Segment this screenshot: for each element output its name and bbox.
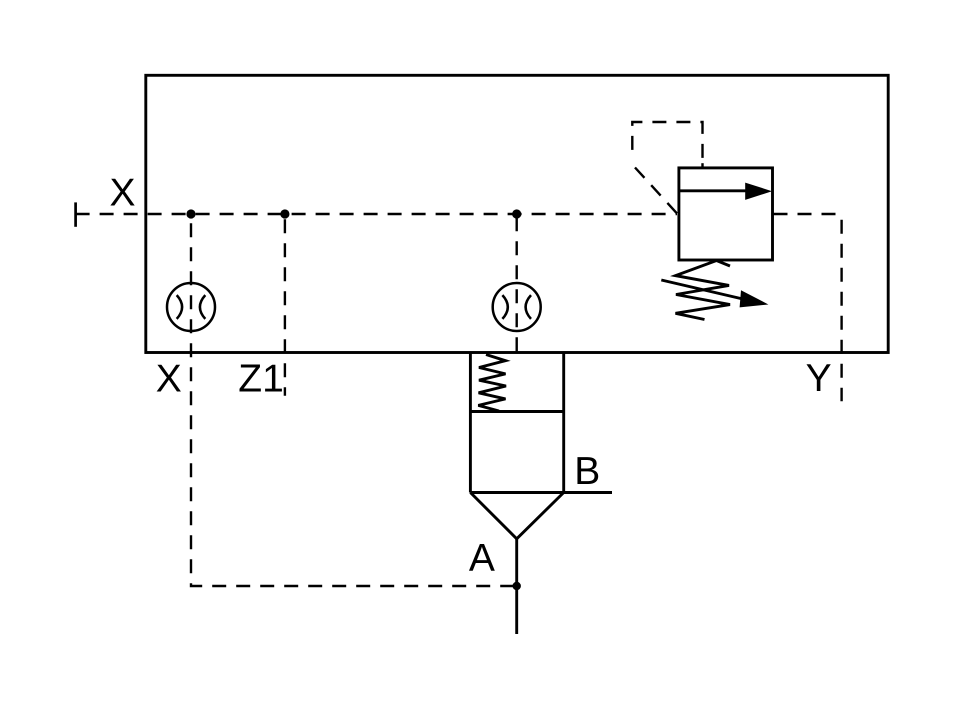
node cartridge pilot junction bbox=[512, 209, 521, 218]
wire: dashed segment right of relief valve bbox=[773, 213, 842, 215]
relief valve spring adjustment arrow bbox=[661, 280, 768, 307]
node junction on X line bbox=[186, 209, 195, 218]
node A junction bbox=[513, 582, 521, 590]
relief valve pilot dashed loop bbox=[632, 122, 702, 168]
cartridge valve body bbox=[470, 353, 563, 493]
svg-text:A: A bbox=[469, 537, 495, 580]
cartridge poppet seat triangle bbox=[470, 493, 563, 539]
port A line bbox=[515, 539, 518, 634]
relief valve body bbox=[679, 168, 773, 260]
svg-text:Y: Y bbox=[806, 357, 832, 400]
manifold block outline bbox=[146, 75, 888, 352]
svg-text:Z1: Z1 bbox=[238, 357, 284, 400]
svg-text:B: B bbox=[574, 450, 600, 493]
relief valve flow arrow bbox=[679, 183, 772, 200]
wire: pilot line X horizontal dashed bbox=[76, 213, 677, 215]
wire: X branch vertical dashed then to node A bbox=[191, 214, 517, 586]
wire: Z1 branch vertical dashed bbox=[284, 214, 286, 396]
wire: cartridge pilot vertical dashed bbox=[516, 214, 518, 353]
orifice plug in X branch bbox=[167, 283, 215, 331]
svg-text:X: X bbox=[110, 171, 136, 214]
port B line bbox=[470, 491, 612, 494]
svg-text:X: X bbox=[156, 357, 182, 400]
pilot port X tick bbox=[74, 202, 77, 226]
orifice plug in cartridge pilot branch bbox=[493, 283, 541, 331]
relief valve spring bbox=[676, 261, 731, 320]
node Z1 junction bbox=[280, 209, 289, 218]
cartridge valve spring bbox=[478, 355, 506, 412]
